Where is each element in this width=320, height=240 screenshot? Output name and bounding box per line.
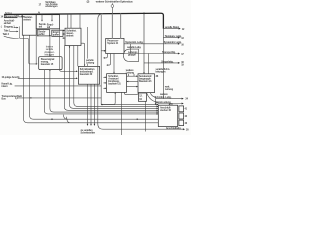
svg-text:gruppe: gruppe xyxy=(128,54,136,57)
wires below I with bottom arrows xyxy=(87,84,89,125)
svg-text:Schnittstellen: Schnittstellen xyxy=(81,131,96,134)
S-curve L bottom xyxy=(150,93,156,99)
left input row C diagonal xyxy=(3,33,10,36)
svg-text:Systemint. Leitg.: Systemint. Leitg. xyxy=(125,41,143,44)
svg-text:Anschlußleitg.: Anschlußleitg. xyxy=(166,127,182,130)
text 36 xyxy=(156,75,159,78)
top main bus xyxy=(4,13,163,28)
arrows into K left xyxy=(103,76,105,78)
svg-text:12: 12 xyxy=(182,28,185,31)
svg-text:intern: intern xyxy=(2,85,9,88)
svg-text:43: 43 xyxy=(185,122,188,125)
svg-text:17: 17 xyxy=(39,4,42,7)
svg-text:19: 19 xyxy=(181,64,184,67)
short wire below F x77.8 xyxy=(77,46,79,67)
box J processor xyxy=(106,38,124,53)
svg-text:Bus: Bus xyxy=(2,98,7,101)
svg-text:16: 16 xyxy=(181,43,184,46)
wire x36.2 below B xyxy=(35,35,37,64)
left label row1 xyxy=(2,76,21,79)
svg-text:puffer: puffer xyxy=(53,33,59,36)
left input row A xyxy=(1,26,16,29)
svg-text:30: 30 xyxy=(186,128,189,131)
text T19 xyxy=(165,86,174,92)
merge curves xyxy=(64,115,67,120)
svg-text:17: 17 xyxy=(181,53,184,56)
wire C right down to I arrow xyxy=(60,29,78,72)
svg-text:teil: teil xyxy=(47,26,51,29)
left label row3 xyxy=(2,95,23,101)
box H control signal module xyxy=(39,57,62,70)
label in C right xyxy=(47,23,54,29)
left input row B xyxy=(4,30,11,33)
elbow wire to H xyxy=(19,26,37,64)
label T16 xyxy=(156,68,171,74)
small boxes right of M xyxy=(179,106,184,112)
svg-text:13: 13 xyxy=(181,37,184,40)
bottom text T10 xyxy=(81,129,96,135)
wire into C x52 xyxy=(51,14,53,21)
text G free block xyxy=(44,45,54,56)
svg-text:Eingang 1: Eingang 1 xyxy=(4,26,15,29)
svg-text:Steuerleitg.: Steuerleitg. xyxy=(161,60,173,63)
svg-text:System 11: System 11 xyxy=(107,42,119,45)
svg-text:10-polige Anschl.: 10-polige Anschl. xyxy=(2,76,21,79)
svg-text:04: 04 xyxy=(139,98,142,101)
enclosure frame xyxy=(98,14,184,129)
wire D/E dot to H top xyxy=(49,36,51,56)
wire K bottom straight down xyxy=(120,92,122,135)
svg-text:Leitung: Leitung xyxy=(126,71,135,74)
svg-text:weiterer Schnittstellen-Option: weiterer Schnittstellen-Optionsbus xyxy=(96,1,134,4)
rounded connector box xyxy=(124,49,139,62)
svg-text:Baustein 21: Baustein 21 xyxy=(139,80,152,83)
right label line L7 xyxy=(159,103,183,105)
wire bus-ish down to I xyxy=(86,27,88,59)
svg-text:Takt 1: Takt 1 xyxy=(4,30,11,33)
box B keyboard unit xyxy=(22,15,36,36)
svg-text:einheit: einheit xyxy=(4,22,11,25)
wire K bottom chain left xyxy=(102,92,115,104)
text "14" left xyxy=(1,15,4,18)
svg-text:(2): (2) xyxy=(87,1,90,4)
svg-text:36: 36 xyxy=(156,75,159,78)
text T4 above bus xyxy=(5,13,13,15)
svg-text:14: 14 xyxy=(1,15,4,18)
inner frame line x101.2 xyxy=(100,15,102,105)
right label line L2 xyxy=(163,37,179,39)
arrows into F left xyxy=(62,29,64,31)
left long wires below B xyxy=(24,35,159,123)
svg-text:einheit: einheit xyxy=(66,34,73,37)
text T3 xyxy=(87,1,90,4)
svg-text:leitungen: leitungen xyxy=(156,71,167,74)
second S-curve to L7 xyxy=(147,93,159,104)
label above K xyxy=(126,69,135,75)
text right of B1 xyxy=(18,15,25,18)
svg-text:serielle Leitg.: serielle Leitg. xyxy=(127,46,141,49)
wires bus to F top xyxy=(67,14,69,28)
gray bus taps to J xyxy=(111,14,113,39)
right label line L3 xyxy=(124,43,179,45)
box C serial unit xyxy=(36,15,59,29)
svg-text:baustein 15: baustein 15 xyxy=(41,63,54,66)
svg-text:teil: teil xyxy=(39,26,43,29)
svg-text:serielle Daten: serielle Daten xyxy=(165,26,180,29)
wires J bottom xyxy=(104,54,108,58)
label in C left xyxy=(39,23,47,29)
svg-text:puffer: puffer xyxy=(38,33,44,36)
svg-text:Tastatura. Leitg.: Tastatura. Leitg. xyxy=(165,35,182,38)
right label line L6 xyxy=(156,98,183,100)
svg-text:Leitung: Leitung xyxy=(165,88,174,91)
svg-text:Busanschl.: Busanschl. xyxy=(5,15,17,18)
arrow into J left xyxy=(101,50,104,52)
wire into C x42 xyxy=(41,14,43,21)
short link verticals xyxy=(130,44,132,54)
svg-text:(: ( xyxy=(1,26,2,29)
box M connector xyxy=(158,105,177,126)
box K interface control receive xyxy=(107,74,127,93)
box I driver/receiver xyxy=(78,66,99,84)
svg-text:erleitungen: erleitungen xyxy=(45,5,58,8)
text T1 top-left block xyxy=(39,1,59,8)
wires below H xyxy=(44,70,158,114)
svg-text:Systemint. Leitg.: Systemint. Leitg. xyxy=(164,41,182,44)
marker triangle on bus xyxy=(38,12,40,14)
svg-text:baustein 20: baustein 20 xyxy=(80,73,93,76)
rail x163.4 xyxy=(162,29,164,99)
box D send buffer xyxy=(37,30,50,36)
text below B1 xyxy=(4,19,15,25)
right label line L5 xyxy=(144,62,179,64)
wire T2 circle to bus xyxy=(111,3,113,4)
small box B16 xyxy=(138,93,146,101)
label above I xyxy=(86,59,95,65)
svg-text:Schnittst.-Leitg.: Schnittst.-Leitg. xyxy=(155,96,172,99)
svg-text:24: 24 xyxy=(185,98,188,101)
arrowheads into M left xyxy=(157,104,159,106)
wires below F xyxy=(64,46,158,111)
svg-text:Takt 2: Takt 2 xyxy=(3,33,10,36)
wire K bottom right to L xyxy=(124,92,138,94)
node dot D/E xyxy=(49,35,50,36)
text T2 top-center line xyxy=(96,1,134,4)
svg-text:42: 42 xyxy=(185,115,188,118)
node dot on bus x144 xyxy=(143,13,145,15)
svg-text:baustein 31: baustein 31 xyxy=(108,83,121,86)
node dot on bus x112.4 xyxy=(112,13,114,15)
right label line L4 xyxy=(124,53,179,55)
box L transceiver xyxy=(138,74,155,93)
svg-text:41: 41 xyxy=(185,108,188,111)
svg-text:stecker 40: stecker 40 xyxy=(160,109,172,112)
wire F right to I top xyxy=(81,43,85,66)
wire y104.5 to M xyxy=(102,104,158,106)
box B1 bus buffer xyxy=(4,15,17,18)
left label row2 xyxy=(2,83,13,89)
svg-text:Transportltg.: Transportltg. xyxy=(162,51,176,54)
box F interface control xyxy=(65,28,81,45)
box E receive buffer xyxy=(52,30,63,36)
rail x144 into L xyxy=(143,13,145,73)
wire into M top xyxy=(155,99,157,105)
svg-text:einheit: einheit xyxy=(23,19,30,22)
K to L connectors xyxy=(127,75,138,77)
wire below B16 xyxy=(145,101,147,131)
right label line L1 xyxy=(163,28,180,30)
circle below T2 xyxy=(111,5,114,8)
